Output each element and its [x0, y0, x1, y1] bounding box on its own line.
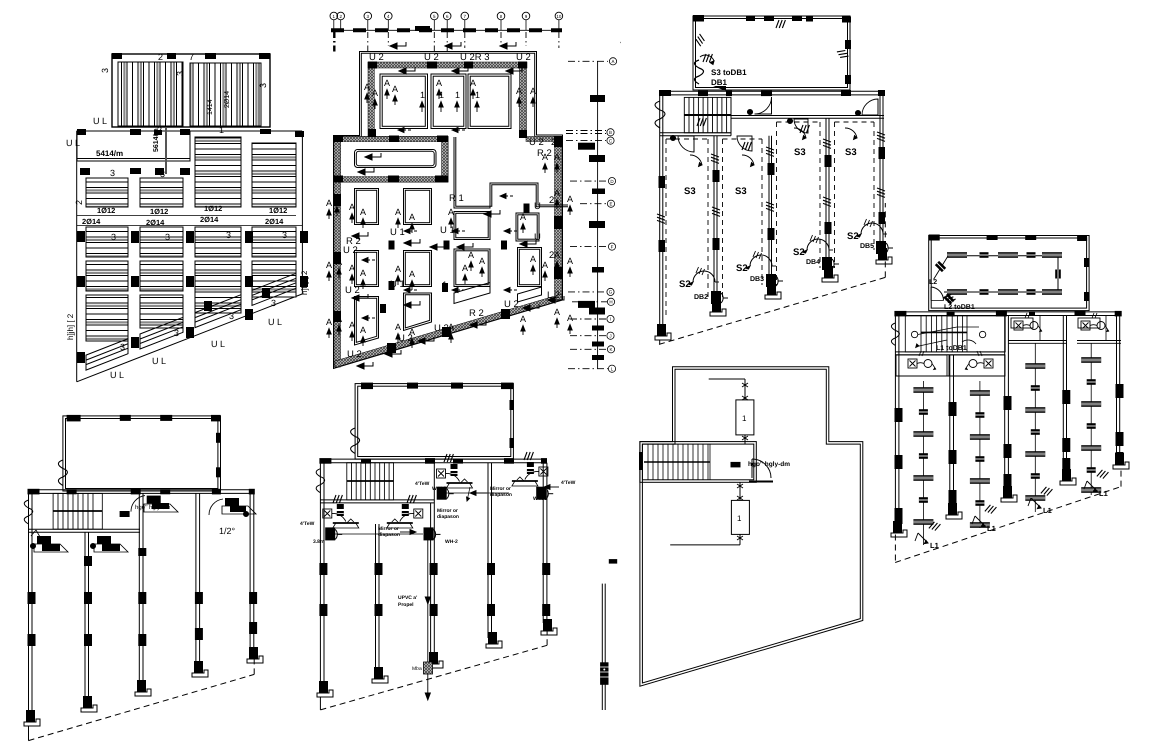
svg-text:A: A	[334, 195, 340, 205]
svg-text:A: A	[567, 256, 573, 266]
diagonal wall band	[335, 294, 562, 368]
svg-text:2: 2	[74, 200, 84, 205]
svg-text:S3: S3	[735, 186, 747, 197]
wavy door left wall balcony	[695, 60, 704, 84]
strip blocks	[77, 129, 304, 175]
svg-text:U: U	[534, 201, 541, 212]
svg-text:W-H-8: W-H-8	[533, 496, 548, 502]
balcony outer	[693, 16, 850, 90]
svg-text:A: A	[567, 194, 573, 204]
stair enclosure	[640, 442, 756, 483]
labels plan2	[343, 52, 560, 360]
S3 swing arrows in rooms	[690, 128, 857, 167]
circles	[607, 58, 617, 373]
footings	[317, 681, 333, 697]
lower-left wall band	[334, 137, 341, 367]
svg-text:1Ø12: 1Ø12	[97, 206, 115, 215]
hatched room frame	[334, 137, 448, 183]
stairs	[644, 444, 710, 480]
svg-text:1Ø12: 1Ø12	[204, 204, 222, 213]
svg-text:A: A	[409, 327, 415, 337]
annotation arrows	[400, 485, 559, 535]
svg-text:U 2: U 2	[347, 349, 362, 360]
wall blocks	[319, 563, 550, 616]
bottom dashed boundary	[659, 203, 885, 344]
svg-text:A: A	[349, 263, 355, 273]
lower door arcs	[670, 118, 808, 152]
black blocks on walls	[334, 62, 563, 354]
svg-text:A: A	[409, 212, 415, 222]
svg-text:S2: S2	[679, 279, 691, 290]
svg-text:L2: L2	[929, 279, 937, 286]
staircase	[53, 493, 102, 529]
svg-text:R 1: R 1	[449, 193, 464, 204]
svg-text:3.8m: 3.8m	[313, 539, 325, 545]
outer boundary double line	[334, 52, 563, 369]
footings	[655, 324, 671, 340]
main top wall	[29, 489, 254, 491]
PLAN7 : bottom-middle plan	[300, 383, 576, 710]
svg-text:A: A	[395, 264, 401, 274]
svg-text:2: 2	[158, 52, 163, 62]
svg-text:7: 7	[189, 52, 194, 62]
svg-text:A: A	[520, 314, 526, 324]
svg-text:U: U	[534, 232, 541, 243]
svg-text:A: A	[326, 317, 332, 327]
left edge	[76, 131, 78, 382]
svg-text:U 2: U 2	[504, 299, 519, 310]
svg-text:4’TeW: 4’TeW	[561, 480, 576, 486]
svg-text:A: A	[360, 325, 366, 335]
svg-text:2Ø14: 2Ø14	[82, 217, 101, 226]
thick dashed grid line	[331, 28, 562, 32]
svg-text:1: 1	[420, 90, 425, 100]
body rooms row D slanted	[355, 283, 542, 346]
svg-text:A: A	[516, 86, 522, 96]
tiny annotation texts	[300, 480, 576, 545]
fan rooms top right	[437, 452, 554, 500]
svg-text:A: A	[567, 313, 573, 323]
svg-text:3: 3	[299, 129, 304, 139]
svg-text:1: 1	[219, 125, 224, 135]
svg-text:1: 1	[475, 90, 480, 100]
arrow line	[165, 128, 167, 174]
balcony wavy door	[58, 460, 67, 486]
divider blocks row2	[77, 231, 308, 363]
svg-text:A: A	[530, 254, 536, 264]
riser 1 lower	[731, 500, 749, 534]
5414 room	[77, 131, 190, 161]
svg-text:3: 3	[110, 168, 115, 178]
PLAN4 : top-right lighting/switch plan	[655, 15, 893, 344]
UL labels bottom	[66, 200, 309, 380]
svg-text:K: K	[609, 347, 612, 352]
svg-text:1Ø12: 1Ø12	[269, 206, 287, 215]
bottom diagonal	[77, 294, 303, 382]
svg-text:U L: U L	[110, 370, 124, 380]
bottom dashed boundary	[895, 468, 1121, 563]
staircase	[347, 463, 394, 500]
svg-text:A: A	[611, 59, 614, 64]
room furniture black marks	[37, 496, 246, 551]
body rooms row B	[355, 189, 540, 242]
svg-text:G: G	[609, 290, 613, 295]
interior vertical walls	[950, 316, 1120, 518]
svg-text:1: 1	[742, 414, 747, 423]
balcony corner door arc	[931, 287, 944, 301]
A-with-arrow marks	[326, 42, 573, 369]
svg-text:U 2: U 2	[424, 52, 439, 63]
svg-text:A: A	[448, 322, 454, 332]
interior vertical walls	[85, 493, 254, 656]
left wall	[319, 459, 321, 710]
hatched box under wall3	[424, 662, 433, 674]
svg-text:U 2: U 2	[343, 245, 358, 256]
svg-text:U 2R 3: U 2R 3	[460, 52, 490, 63]
svg-text:3: 3	[100, 68, 110, 73]
svg-text:3: 3	[282, 230, 287, 240]
svg-text:A: A	[395, 207, 401, 217]
svg-text:A: A	[384, 78, 390, 88]
svg-text:A: A	[360, 207, 366, 217]
svg-text:U 1: U 1	[390, 227, 405, 238]
slanted strips	[86, 273, 296, 370]
svg-text:Mba: Mba	[412, 666, 422, 672]
svg-text:hgo’’ hgly-dm: hgo’’ hgly-dm	[135, 504, 170, 511]
svg-text:A: A	[336, 314, 342, 324]
svg-text:U L: U L	[93, 116, 107, 126]
bay3 panels	[195, 137, 241, 313]
svg-text:E: E	[609, 201, 612, 206]
svg-text:diapason: diapason	[490, 492, 512, 498]
svg-text:A: A	[530, 86, 536, 96]
riser 1 upper	[736, 400, 754, 435]
svg-text:hgo’’ hgly-dm: hgo’’ hgly-dm	[748, 461, 790, 468]
footings	[891, 521, 907, 537]
svg-text:U L: U L	[66, 138, 80, 148]
svg-text:h]jh] [ 2: h]jh] [ 2	[66, 313, 75, 340]
circuit lines with fixtures	[913, 343, 1101, 545]
svg-text:L1: L1	[987, 524, 996, 533]
svg-text:A: A	[479, 256, 485, 266]
svg-text:U L: U L	[152, 356, 166, 366]
staircase	[684, 97, 731, 132]
bay1 panels	[86, 178, 128, 341]
svg-text:A: A	[349, 320, 355, 330]
right edge	[301, 133, 303, 294]
svg-text:DB4: DB4	[806, 259, 820, 266]
svg-text:A: A	[542, 152, 548, 162]
rebar label lines	[77, 215, 296, 217]
svg-text:U 2: U 2	[369, 52, 384, 63]
stepped wall top-right area	[454, 137, 568, 208]
svg-text:F: F	[611, 244, 614, 249]
svg-text:S3: S3	[845, 147, 857, 158]
wall lower stems	[84, 656, 86, 696]
roof top blocks	[112, 53, 270, 59]
roof slab outer	[112, 54, 270, 127]
svg-text:WH-2: WH-2	[445, 539, 458, 545]
main top wall	[895, 311, 1121, 313]
svg-text:2Ø14: 2Ø14	[146, 218, 165, 227]
footings	[24, 710, 40, 726]
L2 toDB1	[943, 292, 955, 304]
right wall band	[555, 137, 562, 300]
left wall	[894, 312, 896, 535]
wall blocks	[895, 384, 1124, 524]
small hook symbols (switch drops)	[929, 521, 941, 532]
grid bubble row	[330, 12, 563, 52]
staircase	[905, 316, 1005, 352]
svg-text:L2 toDB1: L2 toDB1	[944, 304, 975, 311]
black rect + label	[731, 462, 741, 468]
svg-text:Propel: Propel	[398, 602, 414, 608]
GRIDCOL : vertical grid line with A-L bubbles	[566, 41, 621, 372]
dashed diagonal	[29, 656, 255, 741]
svg-text:A: A	[462, 263, 468, 273]
outline double	[640, 367, 863, 686]
svg-text:U L: U L	[268, 317, 282, 327]
balcony	[63, 416, 221, 491]
svg-text:A: A	[554, 152, 560, 162]
svg-text:DB5: DB5	[860, 243, 874, 250]
svg-text:L1 toDB1: L1 toDB1	[936, 345, 967, 352]
fan rooms left below stairs	[896, 351, 1005, 376]
svg-text:2Ø14: 2Ø14	[223, 91, 231, 108]
svg-text:A: A	[392, 84, 398, 94]
svg-text:A: A	[395, 322, 401, 332]
svg-text:U 2: U 2	[434, 323, 449, 334]
svg-text:U 2: U 2	[516, 52, 531, 63]
svg-text:1: 1	[737, 514, 742, 523]
svg-text:1414: 1414	[207, 99, 214, 115]
svg-text:4’TeW: 4’TeW	[300, 521, 315, 527]
section line left	[601, 584, 603, 710]
dash-dot leaders	[566, 61, 608, 368]
svg-text:A: A	[372, 88, 378, 98]
wall segment blocks on line	[578, 95, 605, 360]
main top wall	[320, 458, 547, 460]
interior vertical walls with descending bays	[714, 95, 883, 309]
svg-text:': '	[620, 41, 621, 48]
wall blocks	[28, 548, 258, 646]
svg-text:1: 1	[439, 90, 444, 100]
L1 hooks near bottoms	[915, 481, 1108, 550]
svg-text:B: B	[609, 130, 612, 135]
svg-text:A: A	[520, 212, 526, 222]
svg-text:S3: S3	[794, 147, 806, 158]
furniture outlines + arcs	[30, 496, 256, 552]
svg-text:A: A	[436, 78, 442, 88]
svg-text:S3 toDB1: S3 toDB1	[711, 68, 747, 77]
dash-dot drops	[334, 32, 559, 52]
svg-text:I: I	[610, 317, 611, 322]
dashed circuit rectangles	[666, 122, 874, 318]
svg-text:A: A	[470, 78, 476, 88]
floor strip wall	[77, 130, 302, 132]
svg-text:3: 3	[226, 230, 231, 240]
ticks on interior walls	[697, 118, 706, 126]
right fan rooms	[1008, 313, 1121, 343]
svg-text:diapason: diapason	[378, 532, 400, 538]
stair hall bottom wall	[660, 132, 731, 134]
roof panel B vertical hatch	[190, 63, 261, 126]
svg-text:A: A	[554, 188, 560, 198]
svg-text:A: A	[326, 260, 332, 270]
svg-text:S2: S2	[736, 263, 748, 274]
svg-text:3: 3	[165, 232, 170, 242]
roof panel A vertical hatch	[118, 62, 183, 126]
svg-text:S2: S2	[847, 231, 859, 242]
svg-text:1: 1	[442, 280, 447, 291]
bay4 panels	[252, 143, 296, 297]
svg-text:A: A	[349, 202, 355, 212]
balcony circuit loop	[948, 255, 1058, 257]
left wall	[28, 490, 30, 741]
svg-text:L1: L1	[1099, 489, 1108, 498]
door arcs upper rooms	[747, 97, 878, 116]
svg-text:A: A	[326, 198, 332, 208]
svg-text:3: 3	[271, 298, 276, 308]
PLAN1 : slab framing plan top-left	[66, 52, 309, 382]
S3 toDB1 arrow + text	[700, 55, 714, 61]
main top wall	[660, 90, 884, 92]
svg-text:A: A	[448, 207, 454, 217]
svg-text:4’TeW: 4’TeW	[415, 481, 430, 487]
svg-text:R 2: R 2	[469, 308, 484, 319]
svg-text:1: 1	[455, 90, 460, 100]
svg-text:1Ø12: 1Ø12	[150, 207, 168, 216]
roof labels	[66, 52, 268, 148]
svg-text:1/2°: 1/2°	[219, 526, 236, 536]
svg-text:A: A	[409, 269, 415, 279]
svg-text:U 2: U 2	[529, 137, 544, 148]
svg-text:S2: S2	[793, 247, 805, 258]
svg-text:10: 10	[556, 14, 562, 19]
black blocks on interior walls	[659, 147, 886, 252]
svg-text:UPVC a’: UPVC a’	[398, 595, 418, 601]
svg-text:A: A	[554, 307, 560, 317]
svg-text:A: A	[336, 257, 342, 267]
svg-text:A: A	[364, 82, 370, 92]
svg-text:3: 3	[258, 83, 268, 88]
mid wall right part	[731, 115, 884, 117]
svg-text:H: H	[609, 300, 612, 305]
wing rooms	[380, 74, 511, 129]
svg-text:h]h] [ 2: h]h] [ 2	[300, 270, 309, 295]
svg-text:2Ø14: 2Ø14	[200, 215, 219, 224]
hatched walls wing	[368, 62, 527, 68]
wall under stairs	[895, 351, 1005, 353]
svg-text:A: A	[360, 268, 366, 278]
balcony	[355, 384, 513, 460]
bay2 panels	[140, 178, 183, 328]
svg-text:5414/m: 5414/m	[96, 149, 123, 158]
svg-text:U 2: U 2	[345, 285, 360, 296]
balcony	[929, 236, 1089, 311]
S2 symbols and DB boxes	[679, 219, 893, 304]
svg-text:3: 3	[111, 232, 116, 242]
svg-text:DB2: DB2	[694, 294, 708, 301]
svg-text:2Ø14: 2Ø14	[265, 217, 284, 226]
dashed diagonal	[320, 623, 547, 710]
PLAN8 : roof plan	[600, 367, 863, 710]
svg-text:U L: U L	[211, 339, 225, 349]
fan rooms below stair hall	[323, 495, 441, 540]
left double wavy door	[655, 101, 665, 128]
interior vertical walls	[376, 463, 547, 672]
svg-text:A: A	[542, 260, 548, 270]
PLAN2 : central floor plan	[326, 12, 573, 369]
svg-text:DB3: DB3	[750, 276, 764, 283]
wall ticks	[776, 20, 785, 28]
svg-text:A: A	[468, 250, 474, 260]
balcony top blocks	[693, 15, 851, 84]
svg-text:3: 3	[175, 71, 185, 76]
svg-text:DB1: DB1	[711, 78, 728, 87]
svg-text:J: J	[609, 333, 611, 338]
door arc	[752, 459, 771, 478]
svg-text:S3: S3	[684, 186, 696, 197]
small black dash	[609, 559, 617, 564]
body rooms row C	[355, 248, 542, 287]
svg-text:diapason: diapason	[437, 514, 459, 520]
PLAN6 : bottom-left plan	[24, 415, 263, 741]
left wall	[659, 91, 661, 344]
PLAN5 : right lighting plan	[891, 235, 1129, 563]
svg-text:2: 2	[551, 137, 556, 148]
svg-text:A: A	[554, 250, 560, 260]
